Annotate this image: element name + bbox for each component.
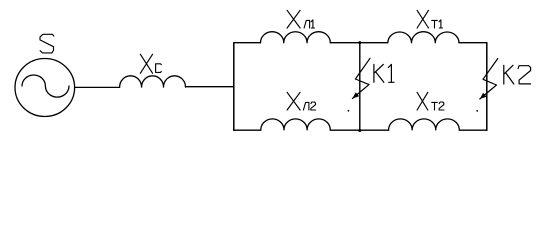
bottom wire left segment [234, 129, 261, 131]
wire source to Xc [75, 86, 120, 88]
reactor Xc coil [120, 76, 186, 87]
label Xc [140, 54, 152, 73]
source S (AC generator) [15, 59, 75, 117]
bottom wire middle segment [330, 129, 388, 131]
stray dot near K1 [348, 110, 350, 112]
junction dot bottom of K1 branch [358, 129, 361, 132]
junction dot top of K1 branch [358, 41, 361, 44]
label K2 [504, 65, 514, 84]
right bus vertical wire [486, 43, 488, 131]
K1 bolt arrowhead [352, 92, 359, 98]
top wire right segment [459, 42, 487, 44]
bottom wire right segment [459, 129, 487, 131]
reactor XT1 coil [388, 32, 459, 43]
label K1 [374, 64, 384, 82]
stray dot near K2 [476, 110, 478, 112]
K1 short-circuit bolt [352, 58, 370, 98]
reactor XT2 coil [389, 119, 460, 130]
wire Xc to left node [186, 86, 234, 88]
label X Л1 [287, 10, 300, 28]
top wire middle segment [330, 42, 388, 44]
label S [40, 34, 54, 53]
label X Л2 [287, 92, 300, 110]
sine wave inside source [22, 75, 69, 97]
K2 short-circuit bolt [480, 59, 498, 100]
K2 bolt arrowhead [480, 93, 487, 99]
left bus vertical wire [233, 43, 235, 131]
label X T1 [417, 10, 428, 28]
label X T2 [417, 92, 428, 110]
reactor XЛ1 coil [261, 32, 331, 43]
reactor XЛ2 coil [261, 119, 331, 130]
top wire left segment [234, 42, 261, 44]
K1 fault branch vertical wire [359, 43, 361, 131]
